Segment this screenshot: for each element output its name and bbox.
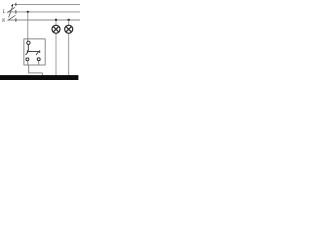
- svg-text:N: N: [1, 19, 6, 24]
- svg-text:L: L: [2, 10, 6, 15]
